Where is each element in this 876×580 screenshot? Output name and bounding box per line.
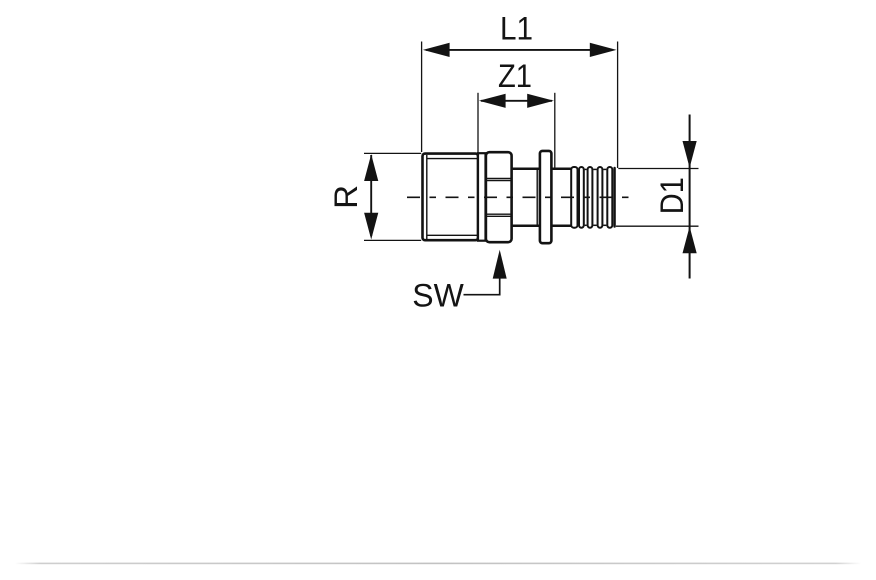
svg-text:Z1: Z1 bbox=[498, 58, 532, 94]
dimension L1 line bbox=[426, 49, 610, 51]
pipe end face bbox=[613, 168, 615, 227]
dimension L1 arrowheads bbox=[423, 43, 617, 57]
cylinder between hex and collar bbox=[512, 169, 539, 226]
dimension L1 extension line left bbox=[421, 42, 423, 153]
press rib 2 bbox=[579, 167, 584, 228]
dimension Z1 arrowheads bbox=[479, 94, 554, 108]
svg-text:L1: L1 bbox=[500, 11, 533, 47]
SW arrowhead bbox=[493, 250, 507, 279]
male thread body bbox=[423, 154, 479, 241]
dimension R extension line top bbox=[364, 152, 421, 154]
step line before collar bbox=[536, 169, 538, 226]
centerline bbox=[407, 196, 633, 198]
dimension R arrowheads bbox=[364, 154, 378, 239]
hex nut bbox=[486, 152, 512, 242]
press rib 4 bbox=[598, 167, 603, 228]
dimension Z1 extension line left bbox=[477, 93, 479, 153]
dimension D1 extension line bottom bbox=[616, 225, 699, 227]
dimension L1 extension line right bbox=[617, 42, 619, 169]
dimension D1 arrowheads bbox=[683, 141, 697, 253]
dimension D1 line bbox=[689, 115, 691, 279]
dimension R extension line bottom bbox=[364, 239, 421, 241]
dimension Z1 line bbox=[481, 100, 552, 102]
press rib 3 bbox=[588, 167, 593, 228]
dimension R line bbox=[370, 155, 372, 236]
press rib 5 bbox=[607, 167, 612, 228]
hex facet lines bbox=[487, 178, 512, 216]
bottom separator line bbox=[15, 563, 861, 565]
press rib 1 bbox=[571, 167, 577, 228]
thread core lines bbox=[427, 155, 478, 239]
dimension Z1 extension line right bbox=[554, 93, 556, 169]
dimension D1 extension line top bbox=[618, 168, 698, 170]
press rib valley surfaces bbox=[585, 169, 607, 225]
SW leader line bbox=[464, 278, 500, 295]
svg-text:SW: SW bbox=[412, 277, 464, 313]
cylinder after collar bbox=[551, 169, 571, 226]
thread neck bbox=[478, 153, 486, 241]
collar flange bbox=[540, 151, 552, 243]
svg-text:D1: D1 bbox=[654, 177, 690, 214]
svg-text:R: R bbox=[328, 185, 364, 209]
